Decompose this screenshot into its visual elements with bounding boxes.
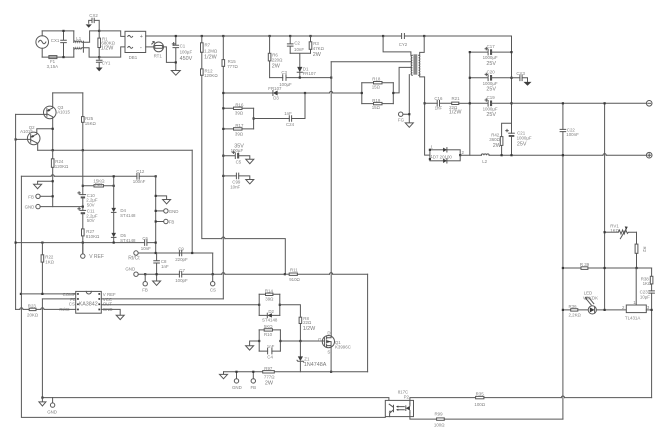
svg-text:R 39: R 39 — [580, 262, 590, 267]
pin GND left — [25, 204, 83, 209]
node snubber drain column — [330, 77, 332, 79]
svg-text:C6: C6 — [142, 236, 148, 241]
node LED row left — [562, 309, 564, 311]
ground earth CY1 — [96, 68, 103, 72]
svg-text:GND: GND — [25, 205, 35, 210]
svg-text:FB: FB — [251, 385, 257, 390]
node C20 right — [510, 77, 512, 79]
capacitor C16 — [425, 96, 452, 111]
svg-text:C19: C19 — [487, 95, 496, 100]
diode D2 — [259, 309, 280, 323]
wire LED row — [563, 309, 626, 311]
svg-text:A1015: A1015 — [20, 129, 33, 134]
capacitor C24 — [254, 93, 305, 127]
wire primary top — [383, 36, 411, 55]
node FB right stub — [155, 220, 157, 222]
node C21 bottom — [510, 154, 512, 156]
IC U1 KA3842 — [59, 291, 116, 313]
node minus col top — [604, 102, 606, 104]
node R11 row left — [284, 273, 286, 275]
svg-text:50V: 50V — [87, 202, 95, 207]
svg-text:1KΩ: 1KΩ — [610, 228, 619, 233]
wire VREF row — [16, 242, 156, 244]
wire sense row left gnd — [223, 372, 225, 375]
wire right column R38 — [651, 268, 653, 398]
ground C1 — [171, 71, 180, 76]
inductor L2 — [481, 154, 489, 164]
resistor R6 — [268, 36, 283, 78]
svg-text:VRKDK: VRKDK — [583, 296, 598, 301]
svg-text:100pF: 100pF — [175, 278, 188, 283]
wire cap bank right rail — [511, 36, 513, 155]
wire R16 R17 right column — [253, 108, 255, 129]
svg-text:L1: L1 — [76, 36, 81, 41]
node secondary column C16 row — [424, 102, 426, 104]
resistor R7 — [201, 36, 218, 61]
resistor R97 — [263, 366, 276, 386]
svg-text:10µF: 10µF — [640, 294, 650, 299]
resistor R1 — [98, 31, 116, 57]
node control column top — [82, 185, 84, 187]
wire C22 column — [562, 103, 564, 419]
node FB test stub — [144, 273, 146, 275]
wire mid row down column — [191, 150, 193, 253]
node R10 block left — [258, 340, 260, 342]
capacitor C10 — [78, 192, 98, 208]
node R39 row TL431 ref — [635, 267, 637, 269]
capacitor C5 — [223, 143, 250, 164]
crossover hop C12 row over R24 column — [51, 175, 54, 177]
svg-text:S: S — [327, 349, 330, 354]
node VREF row D5 — [113, 242, 115, 244]
resistor R26 — [83, 178, 114, 187]
crossover hop R12 row over R15 column — [222, 237, 225, 239]
wire D7 output row — [460, 154, 481, 156]
node C8 column GND row — [156, 273, 158, 275]
resistor R36 — [569, 304, 582, 317]
wire R42 branch — [502, 123, 512, 155]
ground C8 — [153, 281, 161, 285]
resistor R35 — [474, 392, 651, 407]
resistor R42 — [489, 132, 503, 149]
svg-text:1nF: 1nF — [284, 111, 292, 116]
wire RV1 row — [605, 231, 619, 233]
node R10 block right — [279, 340, 281, 342]
node D7 corner bottom — [429, 158, 431, 160]
node VREF row R22 — [41, 242, 43, 244]
svg-text:100µF: 100µF — [180, 50, 193, 55]
svg-text:910Ω: 910Ω — [289, 277, 300, 282]
resistor R22 — [41, 243, 55, 294]
svg-text:100Ω: 100Ω — [474, 402, 485, 407]
svg-text:R36: R36 — [569, 304, 578, 309]
svg-text:10nF: 10nF — [230, 184, 240, 189]
svg-text:FG: FG — [398, 117, 405, 122]
node R42 bottom — [501, 154, 503, 156]
svg-text:R99: R99 — [435, 412, 444, 417]
svg-text:360Ω: 360Ω — [489, 137, 500, 142]
svg-text:Rt/Ct: Rt/Ct — [128, 255, 140, 261]
svg-text:1/2W: 1/2W — [303, 326, 316, 332]
svg-text:2W: 2W — [272, 64, 281, 70]
node R6 top — [269, 35, 271, 37]
MOSFET Q1 — [318, 330, 351, 354]
node Q2 base — [15, 138, 17, 140]
svg-text:220Ω: 220Ω — [272, 58, 283, 63]
wire block to R8 — [280, 305, 301, 317]
ground CY3 — [524, 82, 532, 86]
svg-text:+: + — [140, 34, 143, 40]
node R26 right — [113, 185, 115, 187]
capacitor C1 — [172, 36, 192, 71]
svg-text:-: - — [140, 45, 142, 51]
svg-text:CY1: CY1 — [102, 60, 111, 65]
node GND row join — [82, 206, 84, 208]
svg-text:25V: 25V — [486, 87, 496, 93]
svg-text:R23: R23 — [28, 304, 37, 309]
svg-text:15Ω: 15Ω — [372, 84, 381, 89]
wire C12 row — [21, 175, 155, 177]
node C2 top — [289, 35, 291, 37]
wire opto right bottom to R99 — [410, 413, 437, 419]
wire to bridge bottom — [99, 47, 125, 57]
capacitor C99 — [223, 173, 250, 189]
svg-text:A1015: A1015 — [57, 109, 70, 114]
resistor R2 — [635, 232, 647, 268]
resistor R23 — [27, 304, 39, 318]
node Q2 collector join — [52, 128, 54, 130]
diode D5 — [111, 233, 136, 243]
wire transformer bottom left FG — [403, 75, 409, 123]
svg-text:1N4748A: 1N4748A — [304, 362, 327, 368]
wire bottom left row — [42, 398, 389, 404]
svg-text:810KΩ: 810KΩ — [86, 234, 100, 239]
pin FB sense — [251, 372, 257, 390]
svg-text:1000µF: 1000µF — [517, 136, 532, 141]
svg-text:777Ω: 777Ω — [227, 64, 238, 69]
svg-text:2W: 2W — [265, 380, 274, 386]
wire minus output column — [604, 103, 606, 310]
node D3 row left — [222, 92, 224, 94]
svg-text:120KΩ: 120KΩ — [204, 73, 218, 78]
svg-text:C5: C5 — [236, 159, 242, 164]
svg-text:Z1: Z1 — [304, 356, 310, 361]
svg-text:220pF: 220pF — [175, 257, 188, 262]
wire R18 R19 side columns — [362, 83, 394, 104]
svg-text:5KΩ: 5KΩ — [264, 324, 273, 329]
thermistor RT1 — [146, 42, 176, 63]
node input top — [62, 30, 64, 32]
resistor R17 — [223, 123, 253, 136]
svg-text:R21: R21 — [452, 96, 461, 101]
svg-text:RT1: RT1 — [154, 54, 163, 59]
pin CS test — [210, 274, 216, 292]
svg-text:25V: 25V — [486, 112, 496, 118]
wire COMP C12 column — [21, 176, 385, 417]
wire transformer bottom right column — [420, 75, 430, 156]
svg-text:GND: GND — [232, 385, 242, 390]
svg-text:D7 20100: D7 20100 — [433, 154, 453, 159]
wire source sense row — [224, 371, 368, 373]
node D1 bottom — [299, 77, 301, 79]
capacitor C23 — [640, 290, 655, 300]
ground bottom left — [41, 398, 43, 402]
node mid row R25 — [82, 149, 84, 151]
node RtCt row C8 — [155, 252, 157, 254]
node FB sense — [252, 371, 254, 373]
wire R10 block sides — [259, 330, 280, 351]
svg-text:FR107: FR107 — [303, 71, 317, 76]
wire source column — [330, 348, 332, 372]
svg-text:R11: R11 — [290, 268, 298, 273]
svg-text:1nF: 1nF — [435, 106, 443, 111]
resistor R39 — [580, 262, 590, 269]
svg-text:2,2KΩ: 2,2KΩ — [569, 313, 582, 318]
svg-text:39Ω: 39Ω — [235, 131, 244, 136]
node C22 top — [562, 102, 564, 104]
node bottom left — [41, 397, 43, 399]
svg-text:R19: R19 — [372, 98, 381, 103]
wire secondary top — [420, 36, 425, 55]
diode D3 — [268, 86, 282, 100]
svg-text:DB1: DB1 — [129, 55, 138, 60]
svg-text:TL431A: TL431A — [625, 316, 640, 321]
node C17 right — [510, 51, 512, 53]
resistor R18 — [362, 76, 394, 89]
crossover hop R35 row — [561, 396, 564, 398]
resistor R27 — [82, 229, 101, 239]
node VREF row left tee — [15, 242, 17, 244]
potentiometer RV1 — [610, 223, 636, 238]
wire emitter mid row — [38, 149, 193, 151]
transformer T1 — [411, 54, 420, 75]
svg-text:GND: GND — [169, 209, 179, 214]
pin V REF — [81, 243, 104, 261]
resistor R8 — [299, 316, 316, 341]
resistor R10 — [259, 324, 280, 337]
svg-text:D: D — [327, 330, 330, 335]
node mid row Q3 — [52, 149, 54, 151]
capacitor C17 — [470, 44, 512, 67]
wire R12 column to R11 row — [202, 75, 285, 274]
svg-text:V REF: V REF — [89, 254, 104, 260]
wire RtCt pin row — [16, 308, 76, 310]
node D7 corner top — [429, 149, 431, 151]
svg-text:R14: R14 — [265, 289, 274, 294]
svg-text:C4: C4 — [267, 355, 273, 360]
node C6 right column — [155, 242, 157, 244]
svg-text:1000µF: 1000µF — [483, 81, 498, 86]
svg-text:ST4148: ST4148 — [262, 318, 278, 323]
wire R15 column — [222, 66, 224, 299]
capacitor C3 — [279, 70, 292, 87]
terminal plus — [646, 152, 652, 158]
svg-text:P2: P2 — [404, 394, 410, 399]
node gate block right — [279, 304, 281, 306]
LED D8 — [583, 291, 598, 314]
svg-text:D3: D3 — [273, 96, 279, 101]
pin GND bottom — [47, 398, 57, 415]
node C12 row D4 column — [113, 175, 115, 177]
wire top input — [42, 30, 74, 32]
resistor R16 — [223, 102, 253, 115]
node C19 left — [469, 102, 471, 104]
svg-text:10nF: 10nF — [294, 47, 304, 52]
svg-text:1KΩ: 1KΩ — [643, 281, 652, 286]
pin FB right — [156, 219, 175, 224]
capacitor C20 — [470, 70, 512, 93]
svg-text:100nF: 100nF — [566, 132, 579, 137]
svg-text:GND: GND — [47, 409, 57, 414]
wire C9 C7 join column — [212, 253, 214, 274]
svg-text:C3: C3 — [281, 70, 287, 75]
wire D4 D5 column — [113, 176, 115, 242]
wire gate row — [280, 340, 322, 342]
svg-text:777Ω: 777Ω — [264, 374, 275, 379]
svg-text:FB: FB — [28, 194, 34, 199]
svg-text:FB: FB — [169, 220, 175, 225]
transistor Q3 — [44, 93, 71, 150]
pin FB test — [142, 274, 148, 292]
fuse F1 — [47, 56, 59, 69]
wire FB feedback column — [41, 299, 43, 398]
wire R10 gnd — [250, 341, 260, 346]
node C17 left — [469, 51, 471, 53]
wire Q2 base — [16, 138, 31, 140]
svg-text:L2: L2 — [482, 159, 487, 164]
capacitor C4 — [259, 344, 280, 360]
svg-text:CY2: CY2 — [399, 42, 408, 47]
node right gnd stub — [155, 195, 157, 197]
wire COMP row — [21, 293, 76, 295]
node R18R19 left — [361, 92, 363, 94]
svg-text:D2: D2 — [268, 309, 274, 314]
capacitor C2 — [287, 36, 304, 53]
wire OUT row — [101, 304, 259, 306]
svg-text:100nF: 100nF — [133, 179, 146, 184]
wire aux winding top — [393, 67, 411, 93]
svg-text:C2: C2 — [294, 41, 300, 46]
ground FG — [405, 123, 413, 127]
node GND right stub — [155, 210, 157, 212]
pin GND sense — [232, 372, 242, 390]
wire FB block ground stub — [38, 181, 53, 184]
svg-text:C1: C1 — [180, 43, 186, 48]
svg-text:22Ω: 22Ω — [303, 320, 312, 325]
svg-text:FR107: FR107 — [268, 86, 282, 91]
wire to bridge top — [99, 31, 125, 37]
svg-text:25V: 25V — [517, 142, 527, 148]
wire left base column — [15, 114, 17, 309]
svg-text:KA3842: KA3842 — [79, 301, 98, 307]
diode D4 — [111, 208, 136, 218]
resistor R99 — [434, 412, 563, 428]
ground C99 — [246, 180, 254, 184]
node gnd stub — [52, 180, 54, 182]
node C5 row — [222, 155, 224, 157]
wire VCC row — [101, 298, 223, 300]
transistor Q2 — [20, 125, 53, 150]
node source row — [330, 371, 332, 373]
node C99 row — [222, 175, 224, 177]
svg-text:2W: 2W — [313, 52, 322, 58]
node R39 row mid — [604, 267, 606, 269]
terminal minus — [646, 101, 652, 107]
pin GND right — [156, 209, 179, 214]
wire GND C7 row — [138, 273, 285, 275]
svg-text:R18: R18 — [372, 76, 381, 81]
crossover hop D3 row over drain column — [330, 91, 333, 93]
node D7 out — [459, 154, 461, 156]
svg-text:20KΩ: 20KΩ — [27, 312, 39, 317]
control column C10 C11 — [82, 150, 84, 254]
wire primary bottom row — [331, 61, 411, 63]
node TL431 cathode — [651, 309, 653, 311]
capacitor C11 — [78, 208, 98, 224]
capacitor CY1 — [96, 57, 110, 67]
resistor R3 — [309, 36, 324, 58]
node R17 left — [222, 128, 224, 130]
pin RtCt test — [128, 251, 212, 261]
node C12 right — [155, 175, 157, 177]
wire IC GND — [101, 309, 120, 315]
wire D3 row — [223, 92, 361, 94]
node C22 plus row — [562, 154, 564, 156]
capacitor CY3 — [512, 71, 528, 82]
node OUT block left — [258, 304, 260, 306]
svg-text:3,15A: 3,15A — [47, 64, 59, 69]
ground control right — [163, 200, 171, 204]
svg-text:450V: 450V — [180, 56, 193, 62]
svg-text:FB: FB — [142, 288, 148, 293]
svg-text:1000µF: 1000µF — [483, 106, 498, 111]
svg-text:C20: C20 — [487, 70, 496, 75]
AC source — [36, 31, 49, 57]
wire HV rail — [146, 35, 512, 37]
node COMP R22 — [41, 293, 43, 295]
svg-text:100Ω: 100Ω — [434, 423, 445, 428]
wire bottom input — [42, 56, 74, 58]
wire cap bank left rail — [469, 52, 471, 155]
svg-text:39Ω: 39Ω — [265, 297, 274, 302]
svg-text:R7: R7 — [205, 43, 211, 48]
node C24 row left — [253, 117, 255, 119]
wire drain column — [330, 62, 332, 336]
svg-text:100µF: 100µF — [231, 148, 244, 153]
resistor R19 — [362, 98, 394, 110]
node LED right — [604, 309, 606, 311]
svg-text:1/2W: 1/2W — [101, 46, 114, 52]
svg-text:CS: CS — [69, 302, 75, 307]
svg-text:C16: C16 — [434, 96, 443, 101]
pin FB left — [28, 194, 52, 199]
node R39 left — [562, 267, 564, 269]
capacitor C12 — [133, 169, 146, 184]
wire gate block sides — [259, 294, 280, 315]
svg-text:1nF: 1nF — [267, 344, 275, 349]
resistor R38 — [641, 276, 653, 286]
bridge rectifier DB1 — [125, 31, 146, 60]
node C19 row to minus rail — [512, 102, 647, 104]
svg-text:15Ω: 15Ω — [372, 105, 381, 110]
svg-text:R97: R97 — [264, 366, 273, 371]
capacitor C19 — [470, 95, 512, 118]
svg-text:CS: CS — [210, 288, 216, 293]
wire R39 row — [563, 267, 652, 269]
node RtCt row midcol — [191, 252, 193, 254]
node C24 column top — [304, 92, 306, 94]
svg-text:ST4148: ST4148 — [120, 213, 136, 218]
